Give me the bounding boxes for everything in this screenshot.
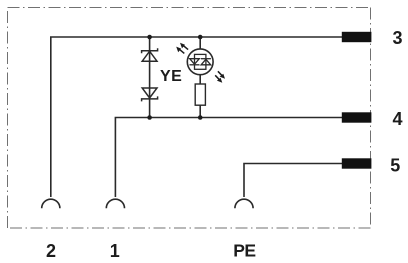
contact PE (socket arc) bbox=[235, 199, 253, 208]
label YE (LED colour) bbox=[160, 68, 182, 85]
contact label 1 bbox=[110, 241, 120, 261]
zener diode (upper, cathode up) bbox=[142, 48, 158, 61]
contact label PE bbox=[233, 241, 255, 261]
terminal 3 (black bar) bbox=[342, 32, 372, 42]
svg-text:5: 5 bbox=[390, 155, 400, 175]
contact 1 (socket arc) bbox=[106, 199, 124, 208]
svg-text:1: 1 bbox=[110, 241, 120, 261]
LED light arrows lower-right bbox=[215, 71, 225, 83]
pin label 4 bbox=[393, 109, 403, 129]
resistor (series with LED) bbox=[195, 84, 205, 105]
wire: middle net from contact 1 up and across to terminal 4 bbox=[115, 118, 342, 198]
svg-text:YE: YE bbox=[160, 68, 182, 85]
svg-text:PE: PE bbox=[233, 241, 255, 261]
pin label 3 bbox=[393, 28, 403, 48]
svg-text:3: 3 bbox=[393, 28, 403, 48]
wire: zener branch vertical bbox=[149, 37, 151, 118]
junction dot: middle wire / LED branch bbox=[198, 115, 203, 120]
zener diode (lower, cathode down) bbox=[142, 88, 158, 101]
LED light arrows upper-left bbox=[176, 43, 188, 54]
pin label 5 bbox=[390, 155, 400, 175]
svg-text:2: 2 bbox=[46, 241, 56, 261]
contact 2 (socket arc) bbox=[42, 199, 60, 208]
wire: PE net from contact PE up and across to terminal 5 bbox=[244, 164, 342, 198]
junction dot: top wire / LED branch bbox=[198, 35, 203, 40]
terminal 4 (black bar) bbox=[342, 112, 372, 122]
terminal 5 (black bar) bbox=[342, 158, 372, 168]
junction dot: middle wire / zener branch bbox=[147, 115, 152, 120]
LED indicator lamp (dual LED in circle) bbox=[187, 49, 213, 75]
contact label 2 bbox=[46, 241, 56, 261]
wire: top net from contact 2 up and across to terminal 3 bbox=[51, 37, 342, 197]
wire: LED/resistor branch vertical bbox=[199, 37, 201, 118]
svg-text:4: 4 bbox=[393, 109, 403, 129]
junction dot: top wire / zener branch bbox=[147, 35, 152, 40]
